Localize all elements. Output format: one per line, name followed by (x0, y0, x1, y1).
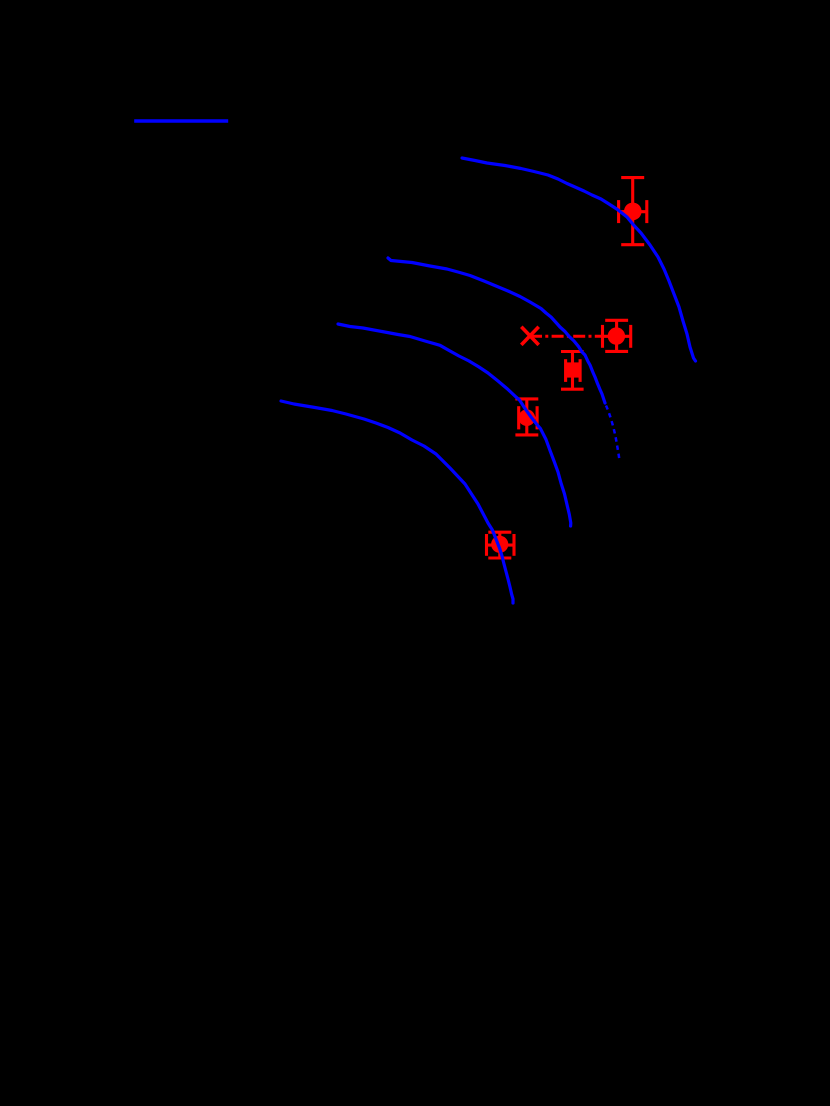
data point 3 (red square) (561, 352, 584, 390)
dash-dot connector (red) (530, 335, 603, 338)
data point 2 (red circle, linked to X) (603, 320, 631, 351)
legend line (blue sample) (134, 119, 228, 122)
curve 2 (blue, solid part) (388, 258, 605, 403)
data point 5 (red circle, bottom) (487, 532, 515, 558)
curve 4 (blue, bottommost) (281, 401, 513, 603)
curve 2 dashed tail (606, 406, 619, 460)
curve 1 (blue, topmost) (462, 158, 696, 361)
data point 4 (red circle, middle-low) (515, 399, 538, 435)
curve 3 (blue) (338, 324, 571, 526)
data point 1 (red circle, top) (619, 178, 647, 245)
X marker (red cross) (521, 327, 538, 345)
